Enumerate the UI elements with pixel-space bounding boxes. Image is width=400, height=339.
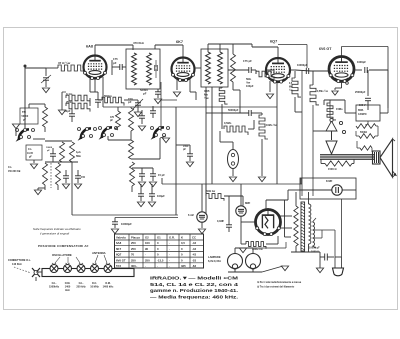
svg-text:1000 V: 1000 V — [311, 251, 319, 254]
svg-text:10000pF: 10000pF — [297, 63, 308, 67]
svg-text:6V6 GT: 6V6 GT — [319, 47, 332, 51]
wire cathode junction — [61, 98, 63, 106]
big hollow arrow down — [326, 141, 337, 154]
ground cathode — [58, 110, 65, 115]
ground line filter — [316, 268, 323, 273]
field coil box — [356, 105, 380, 121]
svg-text:25000pF: 25000pF — [355, 90, 366, 94]
trimmer C3 — [77, 265, 85, 273]
wire HT to plug — [291, 251, 320, 253]
ground V3 — [266, 94, 273, 99]
vertical bus 3 — [211, 87, 213, 184]
resistor 10M — [259, 115, 268, 139]
IF1 primary coil — [132, 53, 137, 85]
ground jack — [229, 177, 236, 182]
svg-text:90: 90 — [145, 247, 149, 251]
ground 150pF — [134, 112, 141, 117]
wire B+ right side — [387, 70, 389, 113]
svg-text:-: - — [169, 264, 170, 268]
ground 100uF b — [148, 202, 155, 207]
resistor osc 4 — [43, 163, 48, 185]
svg-text:CC: CC — [192, 236, 196, 240]
svg-text:Placca: Placca — [131, 236, 140, 240]
svg-text:5000Ω: 5000Ω — [360, 132, 367, 134]
dashed pointer — [14, 267, 31, 273]
speaker voice coil — [373, 151, 381, 164]
band switch S1c — [102, 127, 112, 138]
svg-text:143 KHz: 143 KHz — [12, 263, 22, 266]
power plug — [334, 257, 336, 268]
svg-text:② Tra i due estremi del filame: ② Tra i due estremi del filamento — [257, 286, 295, 289]
ground osc mid — [30, 164, 37, 169]
svg-text:-43: -43 — [192, 247, 196, 251]
svg-text:300~: 300~ — [131, 264, 138, 268]
wire lamp top — [234, 248, 236, 254]
wire screen bus y100 — [324, 99, 345, 101]
wire IF1 top to V2 — [154, 45, 156, 49]
dashed coupling line — [50, 163, 52, 188]
svg-text:250: 250 — [131, 247, 136, 251]
svg-text:8 MF: 8 MF — [326, 179, 333, 183]
wire V1 pins down — [89, 78, 91, 92]
capacitor cathode bypass — [95, 99, 101, 101]
ground 100uF a — [137, 202, 144, 207]
svg-text:① Per i telai radiofonicamente: ① Per i telai radiofonicamente a massa — [257, 281, 302, 284]
resistor padder 2 — [129, 108, 134, 131]
svg-text:C.L: C.L — [8, 166, 13, 169]
wire B+ top rail — [342, 46, 389, 48]
wire V3 cathode down — [276, 82, 278, 184]
wire V4 plate top — [341, 47, 343, 56]
box CL 13-65 — [26, 145, 42, 160]
svg-text:6A8: 6A8 — [86, 45, 93, 49]
trimmer C2 — [64, 265, 72, 273]
svg-text:-: - — [169, 258, 170, 262]
svg-text:ANTENNA: ANTENNA — [92, 251, 106, 255]
capacitor 10000pF bus — [112, 221, 118, 223]
ground V2 cathode — [173, 92, 180, 97]
resistor grid leak V3 — [231, 54, 236, 82]
trimmer capacitor antenna — [43, 77, 49, 79]
svg-text:BOB.: BOB. — [358, 110, 364, 112]
wire right drop — [341, 199, 343, 257]
resistor osc 1 — [43, 107, 48, 127]
IF2 primary coil — [206, 52, 211, 84]
electrolytic 8MF filter — [332, 185, 342, 195]
svg-text:1μA: 1μA — [76, 151, 81, 154]
ground osc b — [74, 184, 81, 189]
svg-text:15 pF: 15 pF — [158, 173, 165, 177]
wire bus y215 — [72, 214, 178, 216]
capacitor osc a — [63, 175, 69, 177]
wire V2 to IF2 — [195, 67, 201, 69]
box TM 50000pF — [20, 108, 38, 124]
wire switch row — [15, 128, 17, 136]
vertical bus 1 — [175, 107, 177, 215]
capacitor 15pF b — [150, 173, 156, 175]
svg-text:0,5Mo: 0,5Mo — [224, 121, 232, 125]
capacitor 15pF a — [139, 173, 145, 175]
svg-text:100μF: 100μF — [157, 194, 165, 198]
svg-text:Sulle frequenze indicate va ef: Sulle frequenze indicate va effettuato — [33, 227, 81, 231]
svg-text:320Ω 1w: 320Ω 1w — [252, 247, 264, 251]
big hollow arrow down 2 — [331, 131, 333, 140]
svg-text:325: 325 — [181, 264, 186, 268]
svg-text:6V6 GT: 6V6 GT — [116, 258, 126, 262]
svg-text:-: - — [169, 247, 170, 251]
svg-text:G2: G2 — [145, 236, 149, 240]
svg-text:gamme n. Produzione 1940-41: gamme n. Produzione 1940-41. — [150, 288, 239, 294]
svg-text:Mo: Mo — [289, 86, 293, 88]
wire transformer primary tap — [284, 200, 286, 237]
band switch S1d — [154, 127, 164, 138]
IF2 secondary coil — [218, 52, 223, 84]
svg-text:-13,5: -13,5 — [157, 258, 164, 262]
svg-text:pF: pF — [113, 61, 117, 65]
IF1 tuning capacitor — [154, 65, 156, 71]
wire screen to field — [344, 100, 346, 113]
svg-text:6Q7: 6Q7 — [270, 40, 277, 44]
svg-text:-43: -43 — [192, 241, 196, 245]
ground 6uF — [198, 229, 205, 234]
svg-text:pF: pF — [143, 91, 147, 95]
svg-text:5Y3: 5Y3 — [116, 264, 121, 268]
svg-text:OSCILLATORE: OSCILLATORE — [52, 253, 72, 257]
ground V4 cathode arrow — [332, 91, 338, 95]
tube data table — [115, 234, 204, 268]
svg-text:G1: G1 — [157, 236, 161, 240]
svg-text:— Media frequenza: 460 kHz: — Media frequenza: 460 kHz. — [150, 294, 239, 300]
capacitor osc d — [150, 110, 156, 112]
svg-text:6A8: 6A8 — [116, 241, 122, 245]
ground 15pF a — [138, 182, 145, 187]
wire V1 plate to IF1 — [94, 45, 96, 54]
svg-text:150: 150 — [81, 176, 86, 179]
svg-text:6Q7: 6Q7 — [116, 253, 122, 257]
svg-text:LAMPADE: LAMPADE — [208, 255, 221, 259]
svg-text:1500 Ω: 1500 Ω — [328, 167, 337, 171]
caption IRRADIO — [150, 276, 239, 301]
svg-text:70: 70 — [131, 253, 135, 257]
wire to V1 grid — [83, 67, 86, 69]
antenna — [24, 65, 27, 68]
svg-text:K: K — [181, 236, 183, 240]
svg-text:5Mo: 5Mo — [76, 155, 81, 158]
svg-text:6 mF: 6 mF — [188, 213, 194, 217]
resistor osc 3 — [70, 142, 75, 162]
wire filter to bus — [300, 178, 302, 184]
wire rectifier top — [265, 200, 267, 209]
wire rectifier to transformer — [280, 215, 292, 217]
resistor osc 2 — [60, 142, 65, 162]
speaker cone — [380, 139, 393, 177]
svg-text:175 pF: 175 pF — [243, 59, 252, 63]
trimmer C5 — [104, 265, 112, 273]
resistor padder 1 — [116, 111, 121, 130]
pilot lamp 2 — [246, 254, 261, 269]
svg-text:Valvola: Valvola — [116, 236, 126, 240]
capacitor 100uF b — [149, 193, 155, 195]
capacitor 52000pF — [155, 91, 161, 93]
svg-text:CAMPO: CAMPO — [358, 113, 367, 116]
svg-text:CONNETTORE O.L.: CONNETTORE O.L. — [8, 259, 31, 262]
connector X symbol — [32, 268, 40, 277]
wire lamps — [234, 269, 236, 272]
svg-text:10000pF: 10000pF — [121, 222, 132, 226]
ground mid cluster — [138, 126, 145, 131]
wire V4 screen — [354, 69, 362, 71]
wire IF2 tops — [207, 44, 209, 52]
vertical bus 2 — [205, 87, 207, 215]
svg-text:kHz: kHz — [65, 289, 70, 292]
resistor osc 5 — [56, 163, 61, 185]
ground 10000pF — [111, 229, 118, 234]
tube V5 rectifier — [256, 210, 281, 235]
wire mid bottom — [132, 167, 153, 169]
wire osc mid — [45, 140, 72, 142]
svg-text:37 Ω ¼w: 37 Ω ¼w — [58, 61, 71, 65]
svg-text:il generatore di segnali: il generatore di segnali — [40, 232, 69, 236]
svg-text:TM: TM — [22, 110, 26, 114]
svg-text:100 V: 100 V — [359, 104, 366, 107]
ground mid row — [162, 138, 169, 143]
wire rect left — [246, 221, 256, 223]
svg-text:1400 kHz: 1400 kHz — [103, 286, 114, 289]
resistor mid 3 — [130, 162, 135, 186]
wire bus y113 left — [206, 112, 222, 114]
svg-text:250 kHz: 250 kHz — [76, 286, 86, 289]
wire mid cluster top — [117, 107, 119, 111]
svg-text:6K7: 6K7 — [176, 40, 183, 44]
svg-text:-53: -53 — [192, 258, 196, 262]
ground 320 — [239, 248, 246, 253]
wire osc bottom — [45, 161, 78, 163]
ground heater — [281, 266, 288, 271]
svg-text:-63: -63 — [192, 264, 196, 268]
table text — [116, 236, 196, 269]
supply vertical x313 — [312, 105, 314, 196]
field coil resistor 3 — [360, 146, 372, 150]
svg-text:100: 100 — [145, 241, 150, 245]
svg-text:-: - — [145, 264, 146, 268]
wire V2 pin right down — [189, 79, 191, 92]
svg-text:-43: -43 — [192, 253, 196, 257]
svg-text:10000: 10000 — [46, 147, 53, 149]
band switch S1b — [81, 128, 91, 139]
resistor 250k — [66, 103, 90, 111]
svg-text:150-500 K₢: 150-500 K₢ — [8, 171, 21, 173]
pilot lamp 1 — [228, 254, 243, 269]
svg-text:1000pF: 1000pF — [357, 60, 366, 64]
svg-text:-: - — [169, 253, 170, 257]
wire x313 to triangle — [313, 130, 326, 132]
power transformer secondary HT — [309, 204, 311, 244]
page marker arrow — [393, 171, 397, 176]
triangle wiper symbol — [326, 121, 337, 131]
svg-text:10 MHz: 10 MHz — [90, 286, 99, 289]
wire filter box — [300, 189, 332, 191]
wire V3 cathode to ground — [269, 81, 271, 92]
wire to bus left — [71, 162, 73, 215]
wire V2 cathode — [176, 80, 178, 90]
field coil resistor 2 — [359, 134, 375, 139]
ground antenna trimmer — [42, 88, 49, 93]
svg-text:250: 250 — [145, 258, 150, 262]
capacitor 175pF input — [119, 64, 121, 70]
wire osc top — [28, 104, 30, 108]
svg-text:250: 250 — [131, 258, 136, 262]
svg-text:-: - — [169, 241, 170, 245]
svg-text:1500kHz: 1500kHz — [49, 286, 60, 289]
power transformer core — [301, 202, 305, 251]
output transformer core — [320, 154, 375, 156]
svg-text:8MF: 8MF — [245, 201, 251, 205]
svg-text:6,3V-0,15A: 6,3V-0,15A — [208, 259, 221, 263]
svg-text:514, CL 14 e CL 22, con: 514, CL 14 e CL 22, con 4 — [150, 282, 238, 288]
wire grid leak to AVC bus — [233, 89, 240, 91]
svg-text:470 KHz: 470 KHz — [133, 41, 144, 45]
wire heater to transformer — [253, 247, 286, 249]
resistor 0.1M cathode — [66, 95, 90, 103]
wire plug left lead — [334, 230, 336, 257]
ground 1500 — [186, 162, 193, 167]
wire jack — [232, 142, 234, 150]
ground switch — [12, 124, 19, 129]
filter box outline — [300, 178, 356, 199]
wire strip left — [36, 271, 42, 273]
trimmer C1 — [50, 265, 58, 273]
resistor mid 2 — [129, 140, 134, 159]
svg-text:G.R.: G.R. — [169, 236, 175, 240]
svg-text:5Mo: 5Mo — [246, 77, 252, 81]
wire mid row3 — [131, 158, 160, 160]
resistor 15M — [327, 103, 336, 120]
arrow on 150pF trimmer — [133, 99, 143, 109]
svg-text:250: 250 — [131, 241, 136, 245]
svg-text:pF: pF — [128, 100, 132, 104]
svg-text:10Mo ½w: 10Mo ½w — [266, 123, 277, 127]
power transformer primary — [294, 206, 298, 246]
wires labels to trimmers — [55, 257, 60, 263]
svg-text:IRRADIO.▼— Modelli «CM: IRRADIO.▼— Modelli «CM — [150, 276, 238, 282]
capacitor osc c — [139, 115, 145, 117]
svg-text:0,1MF: 0,1MF — [217, 220, 225, 223]
svg-text:13-65: 13-65 — [27, 153, 34, 155]
jack oval — [228, 150, 239, 169]
svg-text:50Ω 1w: 50Ω 1w — [206, 189, 216, 193]
svg-text:100pF: 100pF — [246, 84, 254, 88]
capacitor coupling V3 — [248, 67, 250, 73]
ground IF1 — [154, 99, 161, 104]
wire V3 grid cap — [277, 47, 279, 57]
svg-text:6K7: 6K7 — [116, 247, 122, 251]
IF transformer T2 box — [201, 49, 228, 87]
svg-text:10000 μF: 10000 μF — [309, 247, 320, 250]
wire heater taps — [313, 229, 322, 231]
ground osc bottom — [34, 190, 41, 195]
pin dot V4 — [346, 82, 349, 85]
wire long bus y107 — [103, 106, 277, 108]
power transformer filament winding — [313, 222, 315, 246]
svg-text:-: - — [145, 253, 146, 257]
svg-text:15Mo: 15Mo — [336, 107, 343, 111]
wire V4 cathode — [341, 82, 343, 89]
wire V3 plate right — [290, 69, 295, 71]
ground 15pF b — [149, 182, 156, 187]
resistor IF2 bottom — [219, 88, 227, 104]
resistor 0.5M left vertical — [294, 71, 296, 78]
svg-text:-: - — [157, 264, 158, 268]
capacitor 50000pF avc — [248, 110, 250, 116]
wire bus y217 — [115, 217, 178, 219]
wire bus y184 — [162, 183, 302, 185]
band switch S1a — [19, 129, 29, 140]
capacitor line filter — [324, 254, 326, 261]
svg-text:0,5: 0,5 — [181, 241, 185, 245]
capacitor osc b — [75, 175, 81, 177]
wire tube2 pin down — [160, 82, 162, 131]
wire triangle down — [331, 131, 333, 140]
svg-text:C.L: C.L — [28, 148, 33, 151]
trimmer C4 — [91, 265, 99, 273]
svg-text:POSIZIONE COMPENSATORI AF: POSIZIONE COMPENSATORI AF — [38, 244, 89, 248]
wire V3 plate top loop — [278, 44, 307, 46]
svg-text:50000pF: 50000pF — [228, 108, 239, 112]
ground osc a — [62, 184, 69, 189]
wire antenna to trimmer — [25, 67, 46, 69]
capacitor coupling V4 — [305, 68, 307, 74]
resistor 0.5M right vertical — [312, 71, 314, 85]
field coil resistor 1 — [356, 124, 376, 129]
chassis strip — [42, 269, 134, 277]
wire mid row2 — [108, 139, 131, 141]
supply vertical x302 — [301, 71, 303, 196]
capacitor 100uF a — [138, 193, 144, 195]
ground 10M — [258, 177, 265, 182]
IF1 secondary coil — [147, 53, 152, 85]
output transformer primary — [325, 161, 352, 166]
